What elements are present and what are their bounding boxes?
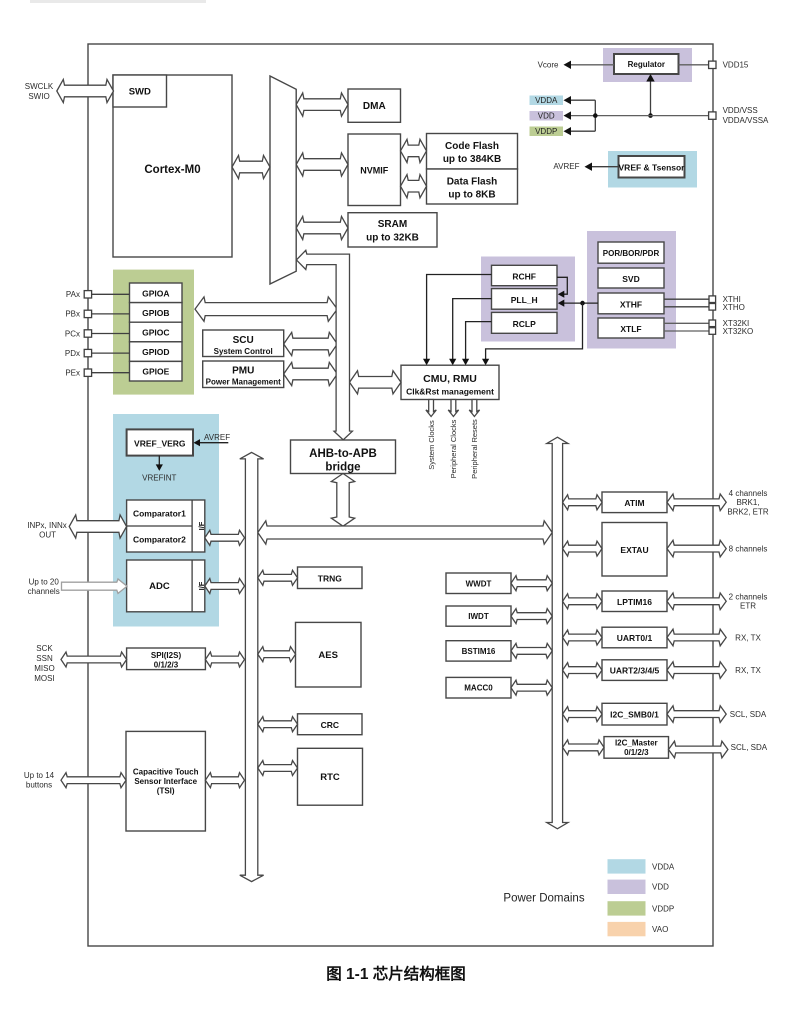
wire RCHF to PLL_H feedback [557, 277, 567, 294]
svg-text:SWD: SWD [129, 87, 151, 98]
wire MACC0 to bus [511, 680, 552, 695]
block GPIOB [130, 303, 183, 323]
svg-text:4 channels: 4 channels [729, 489, 768, 498]
svg-text:RX, TX: RX, TX [735, 633, 761, 642]
svg-text:BRK1,: BRK1, [736, 498, 759, 507]
chip outer border [88, 44, 713, 946]
svg-text:DMA: DMA [363, 101, 386, 112]
svg-text:GPIOB: GPIOB [142, 308, 169, 318]
svg-text:SRAM: SRAM [378, 219, 407, 230]
wire PMU to bus [284, 362, 338, 385]
legend swatch VDD [608, 880, 646, 894]
svg-text:UART2/3/4/5: UART2/3/4/5 [610, 666, 660, 676]
block GPIOA [130, 283, 183, 303]
port arrow I2C_SMB0/1 [667, 706, 726, 723]
wire BSTIM16 to bus [511, 643, 552, 658]
svg-text:Up to 14: Up to 14 [24, 771, 55, 780]
svg-text:PCx: PCx [65, 329, 80, 338]
svg-text:VDD/VSS: VDD/VSS [723, 106, 758, 115]
svg-text:up to 384KB: up to 384KB [443, 154, 501, 165]
wire PLL_H to CMU [453, 299, 492, 362]
wire bus to CRC [258, 717, 298, 732]
pin VDD15 [709, 61, 716, 68]
svg-text:XT32KO: XT32KO [723, 327, 754, 336]
wires XTHF to XTHI/XTHO pins [664, 298, 712, 300]
svg-text:8 channels: 8 channels [729, 544, 768, 553]
svg-text:Power Management: Power Management [206, 377, 281, 386]
svg-text:up to 32KB: up to 32KB [366, 233, 419, 244]
svg-text:AVREF: AVREF [204, 433, 230, 442]
svg-text:Sensor Interface: Sensor Interface [134, 777, 197, 786]
svg-text:Regulator: Regulator [628, 60, 665, 69]
port arrow SWCLK/SWIO [57, 79, 114, 102]
svg-text:System Control: System Control [214, 347, 273, 356]
block VREF & Tsensor [619, 156, 685, 178]
svg-text:GPIOA: GPIOA [142, 288, 169, 298]
port arrow I2C_Master [669, 741, 728, 758]
svg-text:Clk&Rst management: Clk&Rst management [406, 387, 494, 397]
svg-text:VAO: VAO [652, 925, 668, 934]
block WWDT [446, 573, 511, 594]
wire bus to NVMIF [296, 153, 348, 176]
block LPTIM16 [602, 591, 667, 612]
pin PDx [84, 349, 91, 356]
wire bus to I2C_Master [563, 740, 604, 755]
pin PCx [84, 330, 91, 337]
wire comparator to bus [205, 530, 245, 545]
svg-text:PBx: PBx [65, 310, 80, 319]
pin XT32KI [709, 320, 716, 327]
svg-text:bridge: bridge [325, 462, 360, 474]
AHB to bridge bus (bent arrow) [296, 250, 352, 439]
wire SPI to bus [205, 652, 244, 667]
wire bus to UART0/1 [563, 630, 602, 645]
svg-text:I/F: I/F [197, 521, 206, 530]
power domain VDDP background (GPIO group) [113, 270, 194, 395]
svg-text:PEx: PEx [65, 369, 80, 378]
svg-text:ADC: ADC [149, 581, 170, 592]
pin XT32KO [709, 328, 716, 335]
block Data Flash [427, 169, 518, 204]
port arrow INPx, INNx / OUT [69, 515, 126, 538]
wire VREF to AVREF [588, 166, 619, 168]
svg-text:PAx: PAx [66, 290, 80, 299]
block I2C_Master 0/1/2/3 [604, 737, 669, 759]
svg-text:Code Flash: Code Flash [445, 141, 499, 152]
wire Regulator to VDD15 pin [679, 64, 713, 66]
svg-text:VDDA: VDDA [535, 96, 558, 105]
svg-text:GPIOD: GPIOD [142, 347, 169, 357]
svg-text:0/1/2/3: 0/1/2/3 [624, 748, 649, 757]
wire bus to LPTIM16 [563, 594, 602, 609]
block BSTIM16 [446, 641, 511, 661]
svg-text:INPx, INNx: INPx, INNx [27, 521, 67, 530]
block UART0/1 [602, 627, 667, 648]
svg-text:图 1-1 芯片结构框图: 图 1-1 芯片结构框图 [326, 964, 466, 983]
block AES [296, 622, 362, 687]
svg-text:MOSI: MOSI [34, 674, 54, 683]
svg-text:SVD: SVD [622, 274, 639, 284]
svg-text:SCK: SCK [36, 644, 53, 653]
wires XTLF to XT32KI/XT32KO pins [664, 322, 712, 324]
svg-text:2 channels: 2 channels [729, 592, 768, 601]
svg-text:RCLP: RCLP [513, 319, 536, 329]
svg-text:IWDT: IWDT [468, 612, 489, 621]
svg-text:MISO: MISO [34, 664, 54, 673]
svg-text:POR/BOR/PDR: POR/BOR/PDR [603, 249, 660, 258]
pin PAx [84, 291, 91, 298]
clock output arrows [426, 400, 436, 417]
block IWDT [446, 606, 511, 626]
wires VDDA/VDD/VDDP to VDD/VSS pin [594, 100, 596, 131]
svg-text:RTC: RTC [320, 772, 340, 783]
block Code Flash [427, 134, 518, 170]
wire XTHF to PLL_H [561, 302, 598, 304]
wire TSI to bus [205, 773, 244, 788]
block PMU [203, 361, 284, 388]
svg-text:Comparator1: Comparator1 [133, 508, 186, 518]
port arrow Up to 14 buttons [61, 773, 126, 788]
svg-text:SPI(I2S): SPI(I2S) [151, 651, 182, 660]
svg-text:I2C_Master: I2C_Master [615, 738, 658, 747]
wire bus to I2C_SMB0/1 [563, 707, 602, 722]
net label VDDP [530, 127, 564, 137]
svg-text:ETR: ETR [740, 602, 756, 611]
svg-text:NVMIF: NVMIF [360, 166, 389, 176]
wire Cortex-M0 to AHB bus [232, 155, 270, 178]
svg-text:Data Flash: Data Flash [447, 177, 498, 188]
block RTC [298, 748, 363, 805]
wire bridge to APB backbone [331, 474, 354, 527]
wire PDx to GPIO [92, 352, 130, 354]
legend swatch VDDA [608, 859, 646, 873]
block Regulator [614, 54, 679, 74]
port arrow EXTAU [667, 540, 726, 557]
wire bus to TRNG [258, 570, 298, 585]
svg-text:BRK2, ETR: BRK2, ETR [727, 507, 769, 516]
block AHB-to-APB bridge [291, 440, 396, 474]
wire PCx to GPIO [92, 333, 130, 335]
svg-text:LPTIM16: LPTIM16 [617, 597, 652, 607]
wire NVMIF to Code Flash [401, 139, 427, 162]
svg-text:PMU: PMU [232, 366, 254, 377]
port arrow Up to 20 channels [62, 579, 128, 593]
svg-text:VREFINT: VREFINT [142, 473, 176, 482]
power domain VDD background (clock group) [481, 257, 575, 342]
svg-text:CRC: CRC [321, 720, 339, 730]
wire PBx to GPIO [92, 313, 130, 315]
block VREF_VERG [127, 429, 193, 455]
block XTLF [598, 318, 664, 338]
svg-text:Capacitive Touch: Capacitive Touch [133, 768, 199, 777]
block TRNG [298, 567, 363, 589]
block GPIOE [130, 361, 183, 381]
svg-text:OUT: OUT [39, 531, 56, 540]
block NVMIF [348, 134, 401, 206]
svg-text:GPIOC: GPIOC [142, 328, 169, 338]
pin XTHO [709, 304, 716, 311]
svg-text:WWDT: WWDT [466, 579, 492, 588]
wire XTHF branch to CMU [486, 303, 583, 361]
APB backbone horizontal bus [258, 521, 552, 544]
wire bus to RTC [258, 761, 298, 776]
wire SCU to bus [284, 332, 338, 355]
block ATIM [602, 492, 667, 513]
wire WWDT to bus [511, 576, 552, 591]
wire bus to DMA [296, 93, 348, 116]
wire bus to ATIM [563, 495, 602, 510]
svg-text:ATIM: ATIM [624, 498, 644, 508]
power domain VDD background (POR group) [587, 231, 676, 349]
svg-text:Vcore: Vcore [538, 60, 559, 69]
svg-text:SCL, SDA: SCL, SDA [731, 743, 768, 752]
block Cortex-M0 [113, 75, 232, 257]
svg-text:0/1/2/3: 0/1/2/3 [154, 660, 179, 669]
svg-text:Comparator2: Comparator2 [133, 534, 186, 544]
svg-text:AVREF: AVREF [553, 162, 579, 171]
wire bus to UART2/3/4/5 [563, 663, 602, 678]
svg-text:RCHF: RCHF [512, 272, 536, 282]
wire NVMIF to Data Flash [401, 175, 427, 198]
svg-text:VDDA/VSSA: VDDA/VSSA [723, 116, 769, 125]
port arrow LPTIM16 [667, 593, 726, 610]
svg-text:TRNG: TRNG [318, 574, 342, 584]
svg-text:buttons: buttons [26, 781, 52, 790]
svg-text:SCL, SDA: SCL, SDA [730, 710, 767, 719]
port arrow ATIM [667, 494, 726, 511]
port arrow UART0/1 [667, 629, 726, 646]
block GPIOD [130, 342, 183, 362]
svg-text:XTLF: XTLF [620, 324, 641, 334]
wire PEx to GPIO [92, 372, 130, 374]
block SRAM [348, 213, 437, 247]
power domain VDDA background (VREF & Tsensor) [608, 151, 697, 188]
svg-text:VDD: VDD [652, 883, 669, 892]
wire VREFINT [158, 456, 160, 468]
block XTHF [598, 293, 664, 314]
wire bus to CMU [350, 371, 402, 394]
svg-text:SWCLK: SWCLK [25, 82, 54, 91]
block GPIOC [130, 322, 183, 342]
svg-text:Peripheral Resets: Peripheral Resets [470, 419, 479, 479]
wire IWDT to bus [511, 609, 552, 624]
block SVD [598, 268, 664, 288]
svg-text:VREF_VERG: VREF_VERG [134, 439, 186, 449]
svg-text:Peripheral Clocks: Peripheral Clocks [449, 419, 458, 478]
block Comparator1/2 [127, 500, 205, 552]
pin PBx [84, 310, 91, 317]
block SCU [203, 330, 284, 357]
wire bus to EXTAU [563, 541, 602, 556]
power domain VDDA background (analog group) [113, 414, 219, 627]
svg-text:EXTAU: EXTAU [620, 545, 648, 555]
svg-text:UART0/1: UART0/1 [617, 633, 653, 643]
svg-text:SWIO: SWIO [28, 92, 49, 101]
svg-text:Power Domains: Power Domains [503, 893, 584, 905]
svg-text:SCU: SCU [233, 335, 254, 346]
net label VDD [530, 111, 564, 121]
block UART2/3/4/5 [602, 660, 667, 681]
svg-text:SSN: SSN [36, 654, 53, 663]
block SPI(I2S) [127, 648, 206, 670]
block POR/BOR/PDR [598, 242, 664, 263]
port arrow UART2/3/4/5 [667, 662, 726, 679]
pin PEx [84, 369, 91, 376]
block I2C_SMB0/1 [602, 703, 667, 725]
svg-text:(TSI): (TSI) [157, 787, 175, 796]
pin VDD/VSS VDDA/VSSA [709, 112, 716, 119]
svg-text:XTHO: XTHO [723, 303, 745, 312]
wire Regulator to Vcore [567, 64, 615, 66]
block TSI [126, 731, 205, 831]
wire ADC to bus [205, 579, 245, 594]
wire VDD to Regulator [650, 78, 652, 116]
svg-text:VREF & Tsensor: VREF & Tsensor [619, 162, 686, 172]
svg-text:AES: AES [318, 650, 338, 661]
wire bus to SRAM [296, 216, 348, 239]
block CMU, RMU [401, 365, 499, 399]
block ADC [127, 560, 205, 612]
wire AVREF to VREF_VERG [197, 442, 229, 444]
block RCHF [492, 265, 558, 285]
svg-text:VDDP: VDDP [535, 127, 557, 136]
left APB bus [240, 452, 264, 881]
legend swatch VDDP [608, 901, 646, 915]
svg-text:PLL_H: PLL_H [511, 295, 538, 305]
svg-text:MACC0: MACC0 [464, 684, 493, 693]
right APB bus [547, 437, 568, 829]
block SWD [113, 75, 167, 107]
svg-text:XTHF: XTHF [620, 299, 642, 309]
svg-text:CMU, RMU: CMU, RMU [423, 373, 477, 385]
block EXTAU [602, 523, 667, 577]
svg-text:channels: channels [28, 587, 60, 596]
wire RCHF to CMU [427, 275, 492, 362]
pin XTHI [709, 296, 716, 303]
block DMA [348, 89, 401, 122]
block PLL_H [492, 289, 558, 310]
svg-text:GPIOE: GPIOE [142, 367, 169, 377]
wire bus to AES [258, 647, 296, 662]
port arrow SPI signals [61, 652, 127, 667]
block RCLP [492, 312, 558, 333]
svg-text:Cortex-M0: Cortex-M0 [144, 164, 200, 176]
svg-text:BSTIM16: BSTIM16 [462, 647, 496, 656]
svg-text:VDDP: VDDP [652, 904, 674, 913]
legend swatch VAO [608, 922, 646, 936]
svg-text:RX, TX: RX, TX [735, 666, 761, 675]
svg-text:VDD: VDD [538, 111, 555, 120]
net label VDDA [530, 96, 564, 106]
AHB bus trapezoid [270, 76, 296, 284]
svg-text:AHB-to-APB: AHB-to-APB [309, 448, 377, 460]
block MACC0 [446, 677, 511, 698]
svg-text:I2C_SMB0/1: I2C_SMB0/1 [610, 710, 659, 720]
svg-text:up to 8KB: up to 8KB [448, 190, 495, 201]
svg-text:PDx: PDx [65, 349, 80, 358]
block CRC [298, 714, 363, 735]
wire RCLP to CMU [466, 322, 492, 362]
power domain VDD background (Regulator) [603, 48, 692, 82]
wire PAx to GPIO [92, 293, 130, 295]
svg-text:System Clocks: System Clocks [427, 420, 436, 470]
svg-text:VDDA: VDDA [652, 862, 675, 871]
svg-text:VDD15: VDD15 [723, 60, 749, 69]
wire GPIO group to APB bus [195, 297, 337, 321]
svg-text:Up to 20: Up to 20 [29, 577, 60, 586]
top edge artifact bar [30, 0, 206, 3]
